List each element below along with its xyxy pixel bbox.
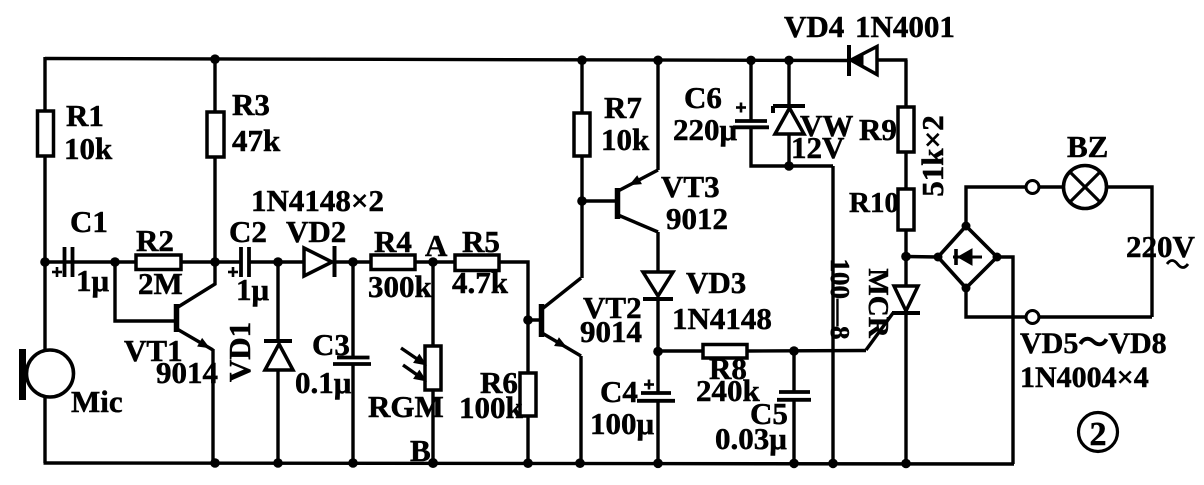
svg-text:R4: R4 <box>374 224 412 259</box>
wire terminal to lamp <box>1039 185 1064 188</box>
svg-text:2: 2 <box>1090 416 1107 453</box>
wire VD4 corner to R9 <box>904 60 907 107</box>
svg-text:R7: R7 <box>604 90 642 125</box>
wire A to R5 <box>433 260 455 263</box>
resistor R4 <box>371 255 415 270</box>
junction dots bottom rail <box>210 458 220 468</box>
wire bridge top up <box>966 187 1026 226</box>
wire R7 top <box>580 60 583 113</box>
wire VT3 collector to VD3 <box>656 232 659 272</box>
junction dot C5 node <box>789 346 799 356</box>
lamp BZ <box>1064 166 1107 209</box>
resistor R10 <box>898 189 914 230</box>
transistor VT3 <box>615 188 621 219</box>
svg-text:47k: 47k <box>232 123 281 158</box>
svg-text:VD5～VD8: VD5～VD8 <box>1020 327 1167 360</box>
resistor R5 <box>455 255 499 271</box>
svg-text:10k: 10k <box>601 122 650 157</box>
svg-text:A: A <box>425 228 448 263</box>
wire bridge right corner down <box>997 257 1013 464</box>
svg-text:R3: R3 <box>232 87 270 122</box>
wire left vertical <box>43 57 46 463</box>
svg-text:1N4004×4: 1N4004×4 <box>1020 361 1149 394</box>
wire C3 upper <box>351 262 354 358</box>
capacitor C5 <box>779 390 810 394</box>
svg-text:VD1: VD1 <box>222 322 257 382</box>
wire VD2 to R4 <box>335 260 371 263</box>
wire R3 bottom to node <box>213 157 216 262</box>
svg-text:300k: 300k <box>368 269 433 304</box>
capacitor C3 <box>337 356 370 360</box>
wire R6 upper <box>526 320 529 373</box>
zener VW <box>773 104 805 108</box>
resistor R9 <box>898 107 914 152</box>
svg-text:BZ: BZ <box>1067 129 1108 164</box>
svg-text:4.7k: 4.7k <box>452 265 509 300</box>
node A <box>428 257 438 267</box>
wire signal row C1 to R2 <box>45 260 136 263</box>
wire top rail right of VD4 <box>877 58 908 61</box>
resistor R6 <box>520 373 536 416</box>
wire VD1 vertical <box>276 262 279 342</box>
diode VD1 <box>264 339 292 343</box>
junction dots signal row <box>40 257 50 267</box>
transistor VT1 <box>174 304 180 332</box>
transistor VT2 <box>539 304 545 337</box>
wire R7 to VT2 collector <box>580 156 583 278</box>
wire C3 lower <box>351 364 354 463</box>
wire bottom rail <box>44 463 1015 464</box>
resistor R8 <box>703 345 747 359</box>
wire RGM lower <box>431 390 434 463</box>
diode VD3 <box>643 272 673 296</box>
svg-text:10k: 10k <box>64 131 113 166</box>
diode VD4 <box>847 45 851 76</box>
resistor R3 <box>207 112 224 157</box>
wire VD1 to bottom rail <box>276 370 279 463</box>
svg-text:1N4148: 1N4148 <box>672 301 772 336</box>
wire bridge bottom down <box>966 288 1026 317</box>
wire R2 to C2 <box>181 260 240 263</box>
wire R4 to A <box>415 260 433 263</box>
junction dot R7 VT3 base <box>577 196 587 206</box>
svg-text:1μ: 1μ <box>236 272 270 307</box>
svg-text:2M: 2M <box>138 266 183 301</box>
capacitor C1 <box>63 247 67 277</box>
svg-text:C4: C4 <box>600 374 638 409</box>
terminal lower <box>1026 311 1039 324</box>
svg-text:B: B <box>410 433 431 468</box>
svg-text:9014: 9014 <box>580 314 642 349</box>
wire C4 to bottom rail <box>656 401 659 463</box>
svg-text:VD4: VD4 <box>784 9 844 44</box>
wire C6 top <box>749 60 752 121</box>
node below R10 <box>901 252 911 262</box>
thyristor MCR <box>894 286 918 311</box>
svg-text:9014: 9014 <box>156 355 218 390</box>
wire VW vertical top <box>787 60 790 107</box>
svg-text:Mic: Mic <box>71 384 123 419</box>
wire MCR cathode down <box>904 313 907 463</box>
wire node to C4 <box>656 352 659 393</box>
wire VT3 emitter up <box>656 60 659 170</box>
terminal upper <box>1026 181 1039 194</box>
wire node to bridge left <box>906 255 938 259</box>
wire R3 top <box>213 59 216 112</box>
svg-text:VD3: VD3 <box>686 265 746 300</box>
wire R6 lower <box>526 416 529 463</box>
capacitor C2 <box>239 247 243 277</box>
svg-text:0.03μ: 0.03μ <box>715 421 787 456</box>
wire RGM upper <box>431 262 434 346</box>
svg-text:R1: R1 <box>66 98 104 133</box>
resistor R7 <box>574 113 590 156</box>
svg-text:1N4001: 1N4001 <box>855 9 955 44</box>
svg-text:VD2: VD2 <box>286 214 346 249</box>
wire lamp to right corner <box>1106 187 1152 317</box>
photoresistor RGM <box>425 346 441 390</box>
wire VT2 emitter down <box>579 356 582 463</box>
bridge rectifier VD5-VD8 <box>938 226 997 288</box>
junction dot VW node <box>784 161 794 171</box>
resistor R1 <box>38 111 54 156</box>
diode VD2 <box>304 248 332 276</box>
svg-text:100k: 100k <box>459 390 524 425</box>
resistor R2 <box>136 255 181 270</box>
svg-text:1N4148×2: 1N4148×2 <box>251 183 384 218</box>
wire R8 left lead <box>658 349 703 352</box>
wire C5 upper <box>792 351 795 392</box>
svg-text:51k×2: 51k×2 <box>915 115 950 196</box>
svg-text:0.1μ: 0.1μ <box>295 365 352 400</box>
wire lower terminal to 220V <box>1039 315 1152 318</box>
wire top rail <box>45 59 850 61</box>
svg-text:100—8: 100—8 <box>825 259 855 340</box>
svg-text:220V: 220V <box>1126 229 1196 264</box>
node below VD3 <box>653 347 663 357</box>
wire node to MCR <box>904 256 907 286</box>
wire VD3 to node <box>656 299 659 352</box>
svg-text:RGM: RGM <box>368 389 444 424</box>
svg-text:R5: R5 <box>462 224 500 259</box>
svg-text:MCR: MCR <box>862 268 894 338</box>
wire R10 to node <box>904 230 907 256</box>
svg-text:100μ: 100μ <box>590 406 655 441</box>
wire C6 bottom to VW node <box>751 127 833 166</box>
svg-text:R10: R10 <box>849 187 899 219</box>
junction dots top rail <box>210 54 220 64</box>
node B <box>428 458 438 468</box>
svg-text:C1: C1 <box>70 204 108 239</box>
wire ground drop from VW node <box>831 166 834 463</box>
svg-text:R9: R9 <box>859 112 897 147</box>
svg-text:220μ: 220μ <box>673 112 738 147</box>
capacitor C6 <box>735 119 767 123</box>
svg-text:9012: 9012 <box>666 201 728 236</box>
wire C5 lower <box>792 400 795 463</box>
figure number 2 <box>1079 413 1118 452</box>
svg-text:1μ: 1μ <box>76 263 110 298</box>
svg-text:C6: C6 <box>684 80 722 115</box>
svg-text:12V: 12V <box>791 130 845 165</box>
wire C2 to VD2 <box>250 260 304 263</box>
svg-text:C2: C2 <box>229 214 267 249</box>
svg-text:R2: R2 <box>136 223 174 258</box>
svg-text:VT3: VT3 <box>661 169 720 204</box>
svg-text:C3: C3 <box>312 327 350 362</box>
wire R5 to VT2 base corner <box>499 262 540 320</box>
wire R8 right to MCR gate wire <box>747 349 866 353</box>
microphone Mic <box>19 349 26 400</box>
wire VT3 base <box>582 199 615 202</box>
wire R9 to R10 <box>904 152 907 189</box>
capacitor C4 <box>641 391 671 395</box>
junction dot VT2 base <box>523 315 533 325</box>
wire VW vertical bottom <box>787 135 790 166</box>
